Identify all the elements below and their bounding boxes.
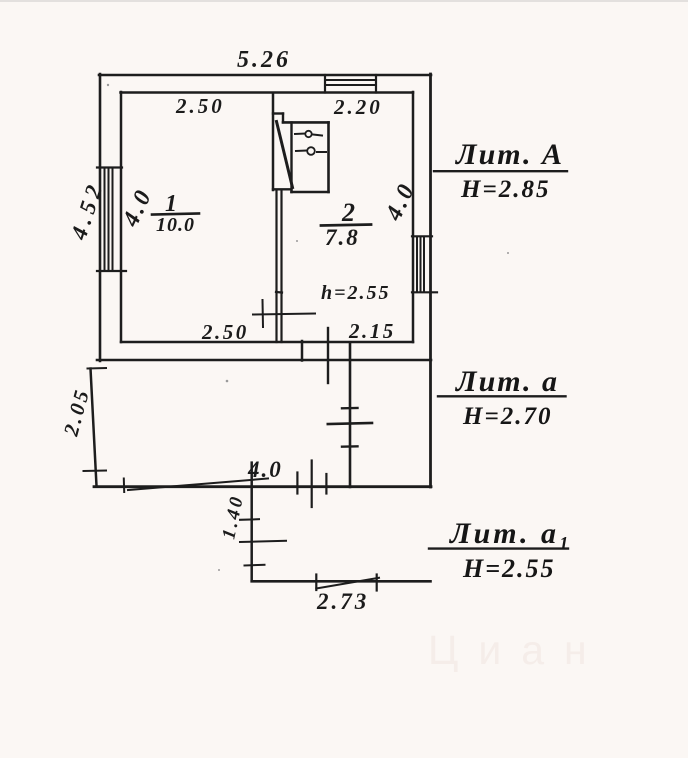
svg-text:7.8: 7.8 — [325, 225, 360, 250]
svg-text:2.73: 2.73 — [316, 589, 369, 614]
svg-text:Лит. А: Лит. А — [454, 138, 564, 171]
svg-text:2: 2 — [341, 198, 355, 227]
svg-text:5.26: 5.26 — [237, 47, 291, 73]
svg-text:2.20: 2.20 — [333, 95, 383, 119]
svg-text:Н=2.55: Н=2.55 — [462, 554, 556, 583]
svg-text:Лит. а: Лит. а — [454, 365, 559, 398]
svg-text:4.0: 4.0 — [247, 457, 283, 482]
svg-text:Лит. а₁: Лит. а₁ — [448, 517, 572, 550]
svg-text:h=2.55: h=2.55 — [321, 282, 391, 304]
svg-text:Н=2.85: Н=2.85 — [460, 176, 550, 203]
svg-text:2.50: 2.50 — [201, 320, 249, 344]
svg-text:2.15: 2.15 — [348, 319, 396, 343]
svg-text:Н=2.70: Н=2.70 — [462, 403, 552, 430]
svg-text:2.50: 2.50 — [175, 94, 225, 118]
svg-text:Циан: Циан — [428, 627, 607, 673]
svg-text:10.0: 10.0 — [156, 214, 195, 236]
